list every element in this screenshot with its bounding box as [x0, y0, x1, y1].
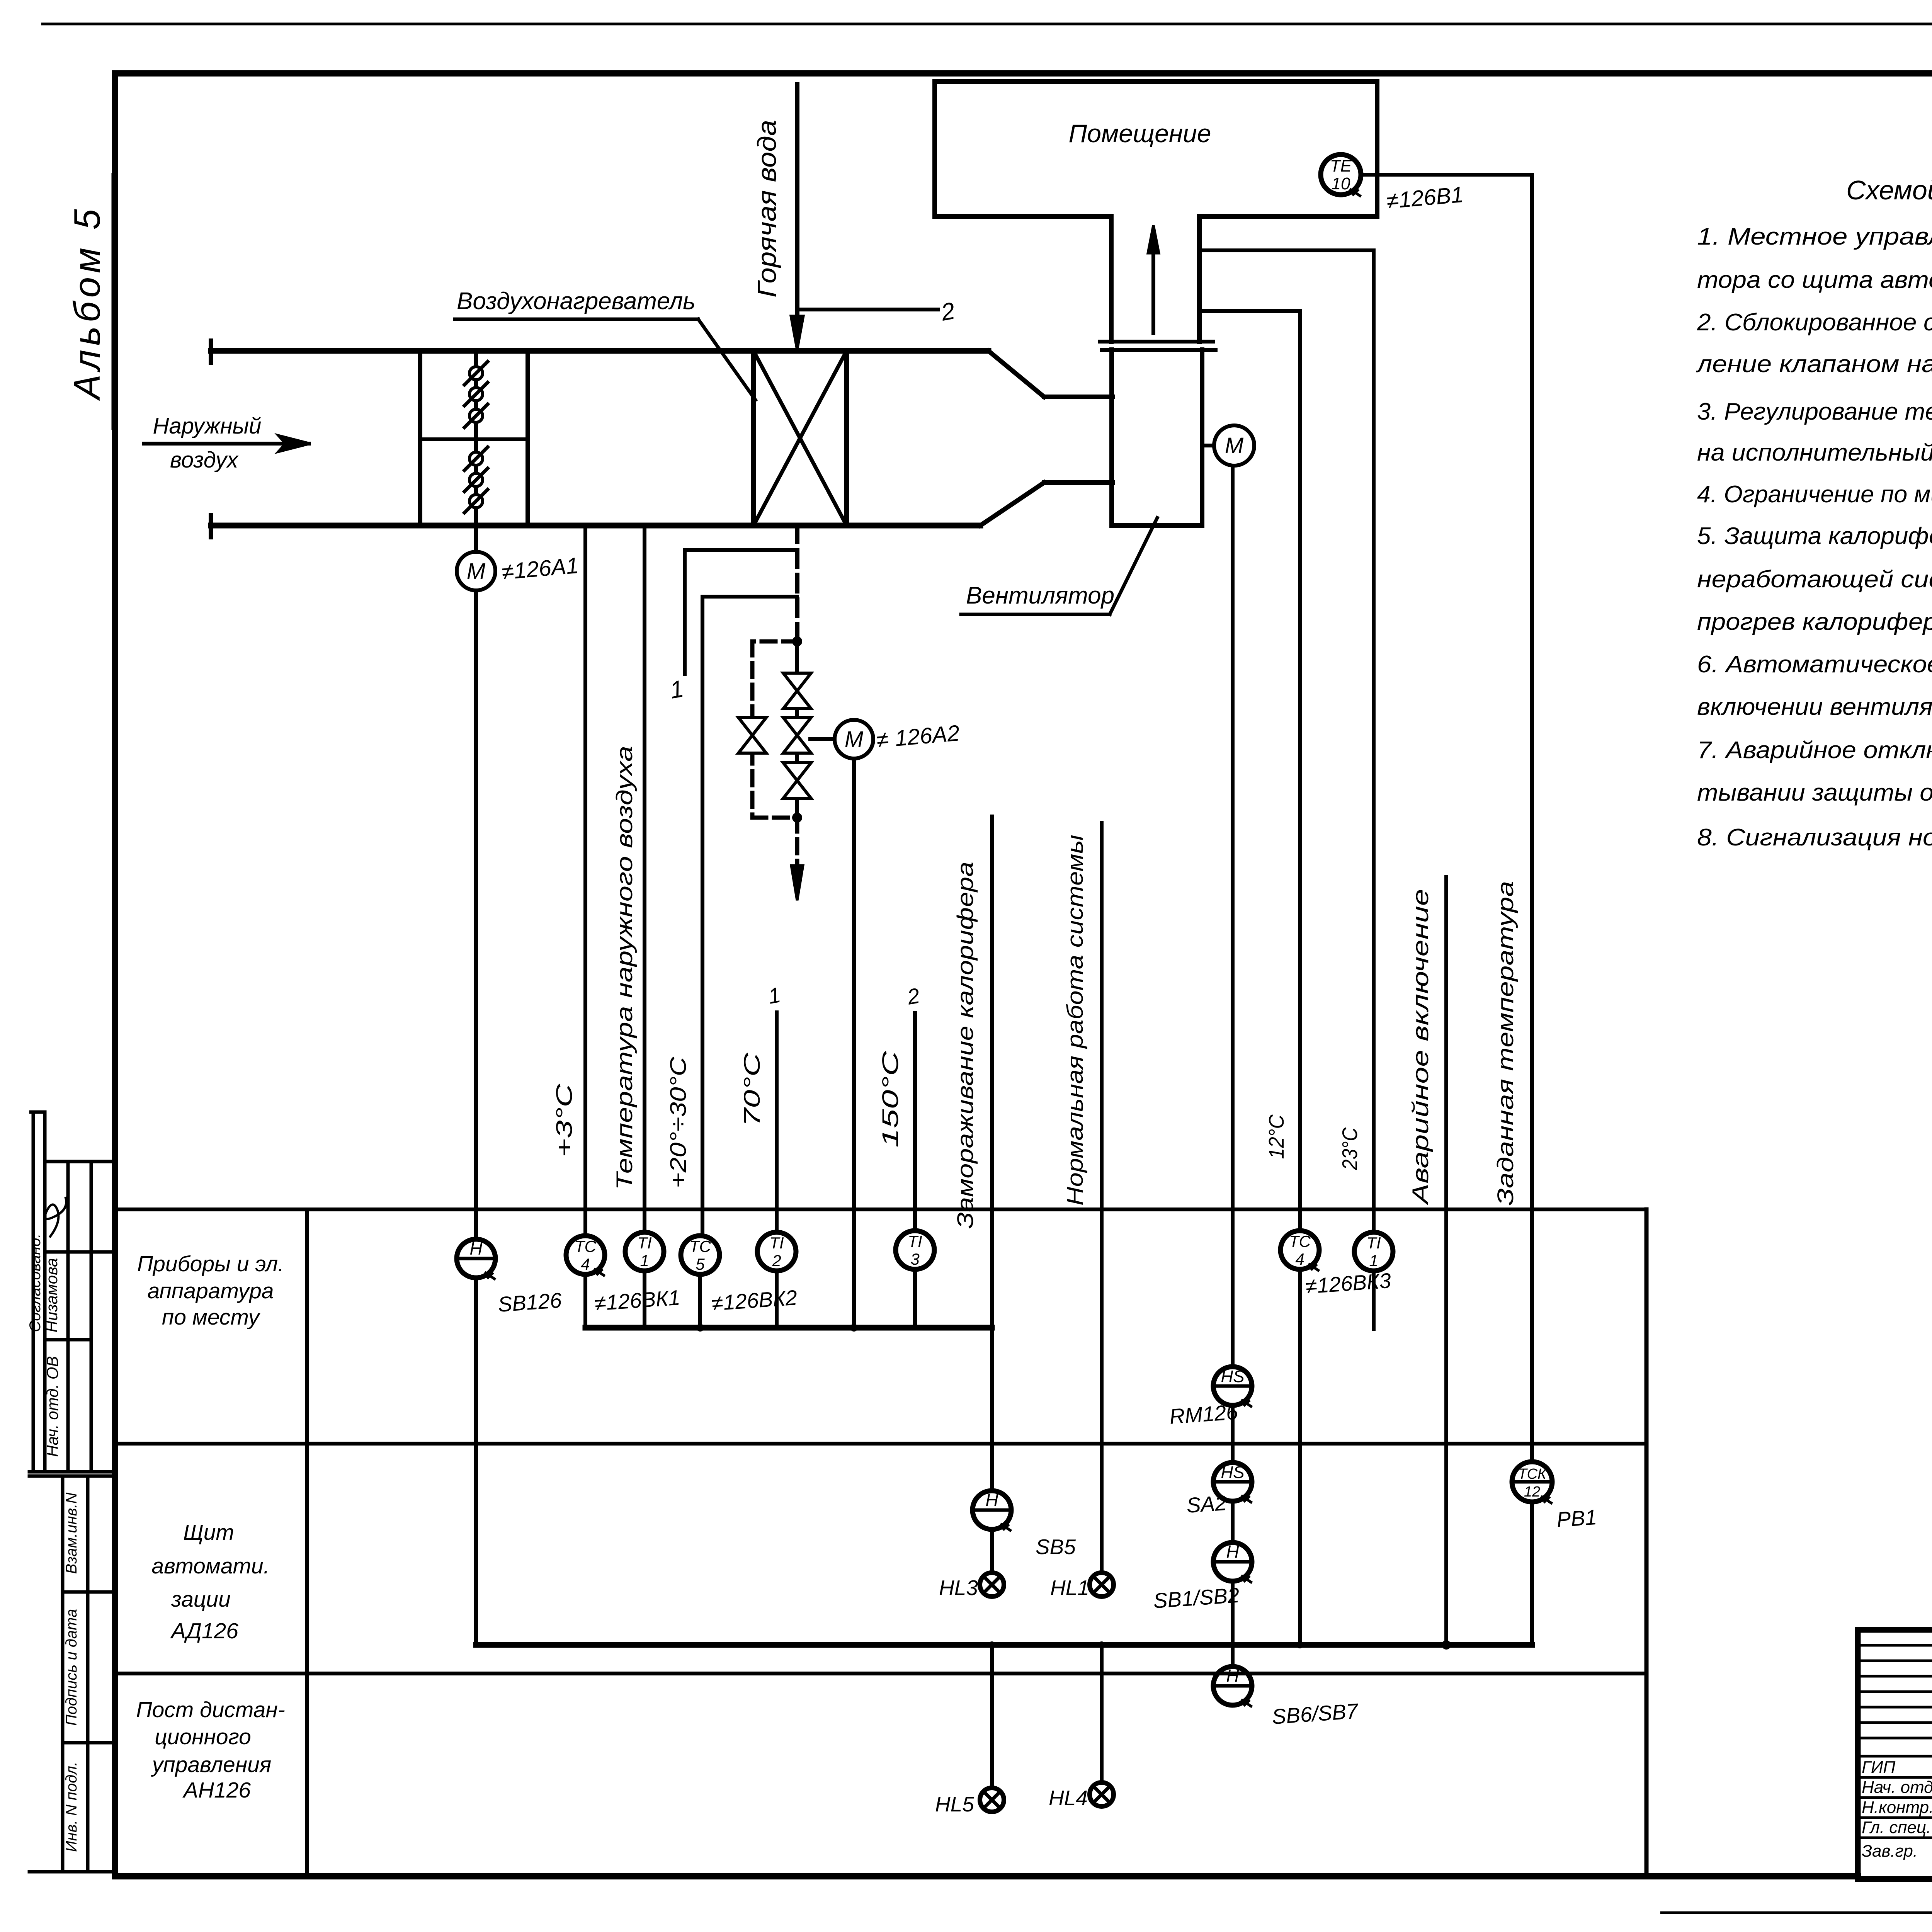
svg-text:6. Автоматическое подключени: 6. Автоматическое подключение системы ре… — [1697, 651, 1932, 678]
svg-text:тора со щита автоматизации: тора со щита автоматизации и дистанционн… — [1697, 267, 1932, 293]
svg-text:+3°С: +3°С — [552, 1083, 577, 1157]
svg-text:М: М — [845, 727, 864, 752]
svg-text:Нач. отд.: Нач. отд. — [1862, 1778, 1932, 1797]
svg-text:HL5: HL5 — [935, 1792, 974, 1816]
svg-text:управления: управления — [151, 1752, 272, 1777]
svg-text:прогрев калорифера перед: прогрев калорифера перед включением. — [1697, 609, 1932, 635]
svg-text:включении вентилятора.: включении вентилятора. — [1697, 694, 1932, 720]
svg-text:Замораживание калорифера: Замораживание калорифера — [953, 862, 978, 1229]
svg-text:7. Аварийное отключение при: 7. Аварийное отключение приточного венти… — [1697, 737, 1932, 764]
svg-text:70°С: 70°С — [740, 1052, 765, 1126]
svg-text:ТСК: ТСК — [1518, 1466, 1547, 1482]
svg-text:Н: Н — [985, 1490, 998, 1510]
svg-text:ТС: ТС — [1289, 1232, 1311, 1250]
svg-text:Вентилятор: Вентилятор — [966, 582, 1114, 609]
svg-text:Температура наружного воздух: Температура наружного воздуха — [612, 746, 637, 1190]
svg-text:4: 4 — [1295, 1250, 1304, 1268]
svg-text:автомати.: автомати. — [151, 1554, 269, 1578]
svg-text:1: 1 — [1369, 1252, 1378, 1270]
svg-text:воздух: воздух — [170, 447, 239, 473]
svg-text:RM126: RM126 — [1169, 1400, 1239, 1429]
svg-text:по месту: по месту — [162, 1305, 261, 1330]
svg-text:HS: HS — [1221, 1463, 1244, 1482]
svg-text:Нач. отд. ОВ: Нач. отд. ОВ — [43, 1356, 61, 1457]
svg-text:АД126: АД126 — [170, 1619, 238, 1643]
svg-text:аппаратура: аппаратура — [147, 1279, 274, 1303]
svg-text:ционного: ционного — [155, 1725, 251, 1749]
svg-text:3. Регулирование температуры: 3. Регулирование температуры воздуха в п… — [1697, 398, 1932, 425]
svg-text:Наружный: Наружный — [153, 413, 262, 439]
svg-text:Согласовано.: Согласовано. — [27, 1233, 44, 1332]
svg-text:Горячая вода: Горячая вода — [752, 120, 782, 298]
svg-text:5: 5 — [696, 1255, 705, 1273]
svg-text:Взам.инв.N: Взам.инв.N — [63, 1493, 80, 1574]
svg-text:SA2: SA2 — [1186, 1491, 1228, 1517]
svg-text:Альбом 5: Альбом 5 — [66, 205, 108, 401]
svg-text:Низамова: Низамова — [43, 1258, 61, 1333]
svg-text:HL4: HL4 — [1049, 1786, 1088, 1810]
svg-text:1: 1 — [640, 1252, 649, 1270]
svg-text:+20°÷30°С: +20°÷30°С — [666, 1056, 691, 1188]
svg-text:Воздухонагреватель: Воздухонагреватель — [457, 288, 696, 315]
svg-text:Заданная температура: Заданная температура — [1493, 881, 1518, 1206]
svg-text:12°С: 12°С — [1264, 1114, 1288, 1159]
svg-text:М: М — [1225, 433, 1244, 458]
svg-text:HS: HS — [1221, 1367, 1244, 1386]
svg-text:12: 12 — [1524, 1484, 1540, 1500]
svg-text:1. Местное управление электр: 1. Местное управление электродвигателем … — [1697, 223, 1932, 250]
svg-text:ТЕ: ТЕ — [1330, 156, 1352, 175]
svg-text:Нормальная работа системы: Нормальная работа системы — [1063, 835, 1088, 1206]
svg-text:неработающей системе и ав: неработающей системе и автоматический 3ˣ… — [1697, 566, 1932, 593]
svg-text:ТI: ТI — [908, 1232, 922, 1250]
svg-text:тывании защиты от заморажи: тывании защиты от замораживания. — [1697, 779, 1932, 806]
svg-text:ТI: ТI — [769, 1234, 784, 1252]
svg-text:Н: Н — [1226, 1542, 1239, 1562]
svg-text:ТС: ТС — [689, 1237, 711, 1255]
svg-text:Щит: Щит — [183, 1520, 234, 1545]
svg-text:23°С: 23°С — [1338, 1127, 1362, 1170]
svg-text:ление клапаном наружного во: ление клапаном наружного воздуха и опроб… — [1696, 351, 1932, 378]
svg-text:зации: зации — [171, 1587, 231, 1612]
svg-text:10: 10 — [1332, 174, 1350, 193]
svg-text:ТI: ТI — [637, 1234, 652, 1252]
svg-text:Аварийное включение: Аварийное включение — [1408, 889, 1433, 1206]
svg-text:Гл. спец.: Гл. спец. — [1862, 1818, 1931, 1837]
svg-text:на исполнительный механизм: на исполнительный механизм клапана на те… — [1697, 439, 1932, 466]
svg-text:Подпись и дата: Подпись и дата — [63, 1609, 80, 1726]
svg-text:Пост дистан-: Пост дистан- — [136, 1697, 285, 1722]
svg-text:4. Ограничение по минимуму: 4. Ограничение по минимуму температуры п… — [1697, 481, 1932, 508]
svg-text:Н: Н — [1226, 1666, 1239, 1686]
svg-text:HL1: HL1 — [1050, 1576, 1089, 1600]
svg-text:SB126: SB126 — [497, 1288, 563, 1316]
svg-text:ГИП: ГИП — [1862, 1758, 1895, 1777]
svg-text:Помещение: Помещение — [1068, 119, 1211, 148]
svg-text:ТС: ТС — [575, 1237, 597, 1255]
svg-text:Инв. N подл.: Инв. N подл. — [63, 1762, 80, 1852]
svg-text:АН126: АН126 — [182, 1778, 251, 1803]
svg-text:Н: Н — [469, 1238, 483, 1259]
svg-text:РВ1: РВ1 — [1556, 1505, 1598, 1532]
svg-text:8. Сигнализация нормальной: 8. Сигнализация нормальной работы приточ… — [1697, 824, 1932, 851]
svg-text:HL3: HL3 — [939, 1576, 978, 1600]
svg-text:М: М — [467, 559, 486, 584]
svg-text:2. Сблокированное с электрод: 2. Сблокированное с электродвигателем пр… — [1697, 309, 1932, 336]
svg-text:Зав.гр.: Зав.гр. — [1862, 1842, 1918, 1861]
svg-text:5. Защита калорифера от зам: 5. Защита калорифера от замораживания пр… — [1697, 523, 1932, 549]
svg-text:Схемой: Схемой — [1846, 175, 1932, 205]
svg-text:Н.контр.: Н.контр. — [1862, 1798, 1932, 1817]
svg-text:Приборы и эл.: Приборы и эл. — [137, 1252, 284, 1276]
svg-text:ТI: ТI — [1366, 1234, 1381, 1252]
svg-text:SB5: SB5 — [1036, 1535, 1076, 1559]
svg-text:3: 3 — [910, 1250, 919, 1268]
svg-text:2: 2 — [772, 1252, 781, 1270]
svg-text:150°С: 150°С — [878, 1050, 903, 1148]
svg-text:4: 4 — [581, 1255, 590, 1273]
